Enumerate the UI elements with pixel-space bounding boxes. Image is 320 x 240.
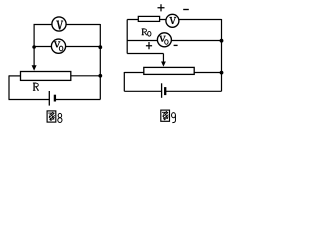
node E: junction dot (rheostat / right vertical) <box>220 71 224 75</box>
wire: V0 branch horizontal <box>127 40 221 42</box>
wire: left vertical upper <box>126 20 128 54</box>
polarity + (middle) <box>146 42 152 49</box>
caption 图9 glyph box <box>161 110 170 121</box>
wire: right vertical <box>221 19 223 91</box>
resistor R0 (series box) <box>138 16 159 21</box>
wire: bottom to battery <box>124 90 161 92</box>
slider arrow head <box>32 65 37 71</box>
wire: V0 branch horizontal <box>34 46 101 48</box>
wire: left lower vertical (outer loop) <box>123 72 125 91</box>
label R <box>33 83 39 90</box>
battery B2 long plate <box>161 83 163 98</box>
voltmeter U1: V (left circuit) <box>52 17 66 31</box>
battery B1 short plate <box>54 95 56 102</box>
wire: rheostat right end to right vertical <box>194 72 221 74</box>
resistor R (rheostat body) <box>21 72 71 81</box>
wire: slider stem <box>162 54 164 62</box>
caption digit 8 <box>58 113 62 122</box>
node D: junction dot (V0 branch / right vertical) <box>220 39 224 43</box>
battery B2 short plate <box>164 87 166 95</box>
wire: battery to right vertical <box>165 90 221 92</box>
wire: rheostat left end to left vertical <box>9 75 21 77</box>
wire: rheostat left end to outer loop <box>124 72 144 74</box>
battery B1 long plate <box>48 91 50 106</box>
voltmeter U2: V0 (left circuit) <box>51 39 65 53</box>
voltmeter U3: V (right circuit) <box>166 14 179 27</box>
wire: battery to right vertical <box>55 99 100 101</box>
slider arrow head <box>161 62 166 67</box>
node A: junction dot left (slider line / V0 branch) <box>32 45 36 49</box>
wire: bottom left to battery <box>9 99 50 101</box>
caption 图8 glyph box <box>47 111 56 122</box>
label R0 <box>142 29 151 36</box>
node C: junction dot right (rheostat / right vertical) <box>98 74 102 78</box>
caption digit 9 <box>172 113 176 123</box>
wire: right vertical <box>99 24 101 100</box>
wire: slider feed from left vertical <box>127 53 163 55</box>
voltmeter U4: V0 (right circuit) <box>157 33 171 47</box>
wire: left lower vertical <box>8 75 10 99</box>
wire: left vertical slider tap line <box>33 24 35 66</box>
resistor (rheostat body, right circuit) <box>144 67 194 74</box>
wire: top branch <box>127 19 221 21</box>
node B: junction dot right (V0 branch / right vertical) <box>98 45 102 49</box>
wire: rheostat right end to right vertical <box>71 75 101 77</box>
wire: top branch to voltmeter V <box>34 24 101 26</box>
polarity - (middle) <box>174 44 178 46</box>
polarity + (top) <box>158 4 165 11</box>
polarity - (top) <box>183 9 189 11</box>
